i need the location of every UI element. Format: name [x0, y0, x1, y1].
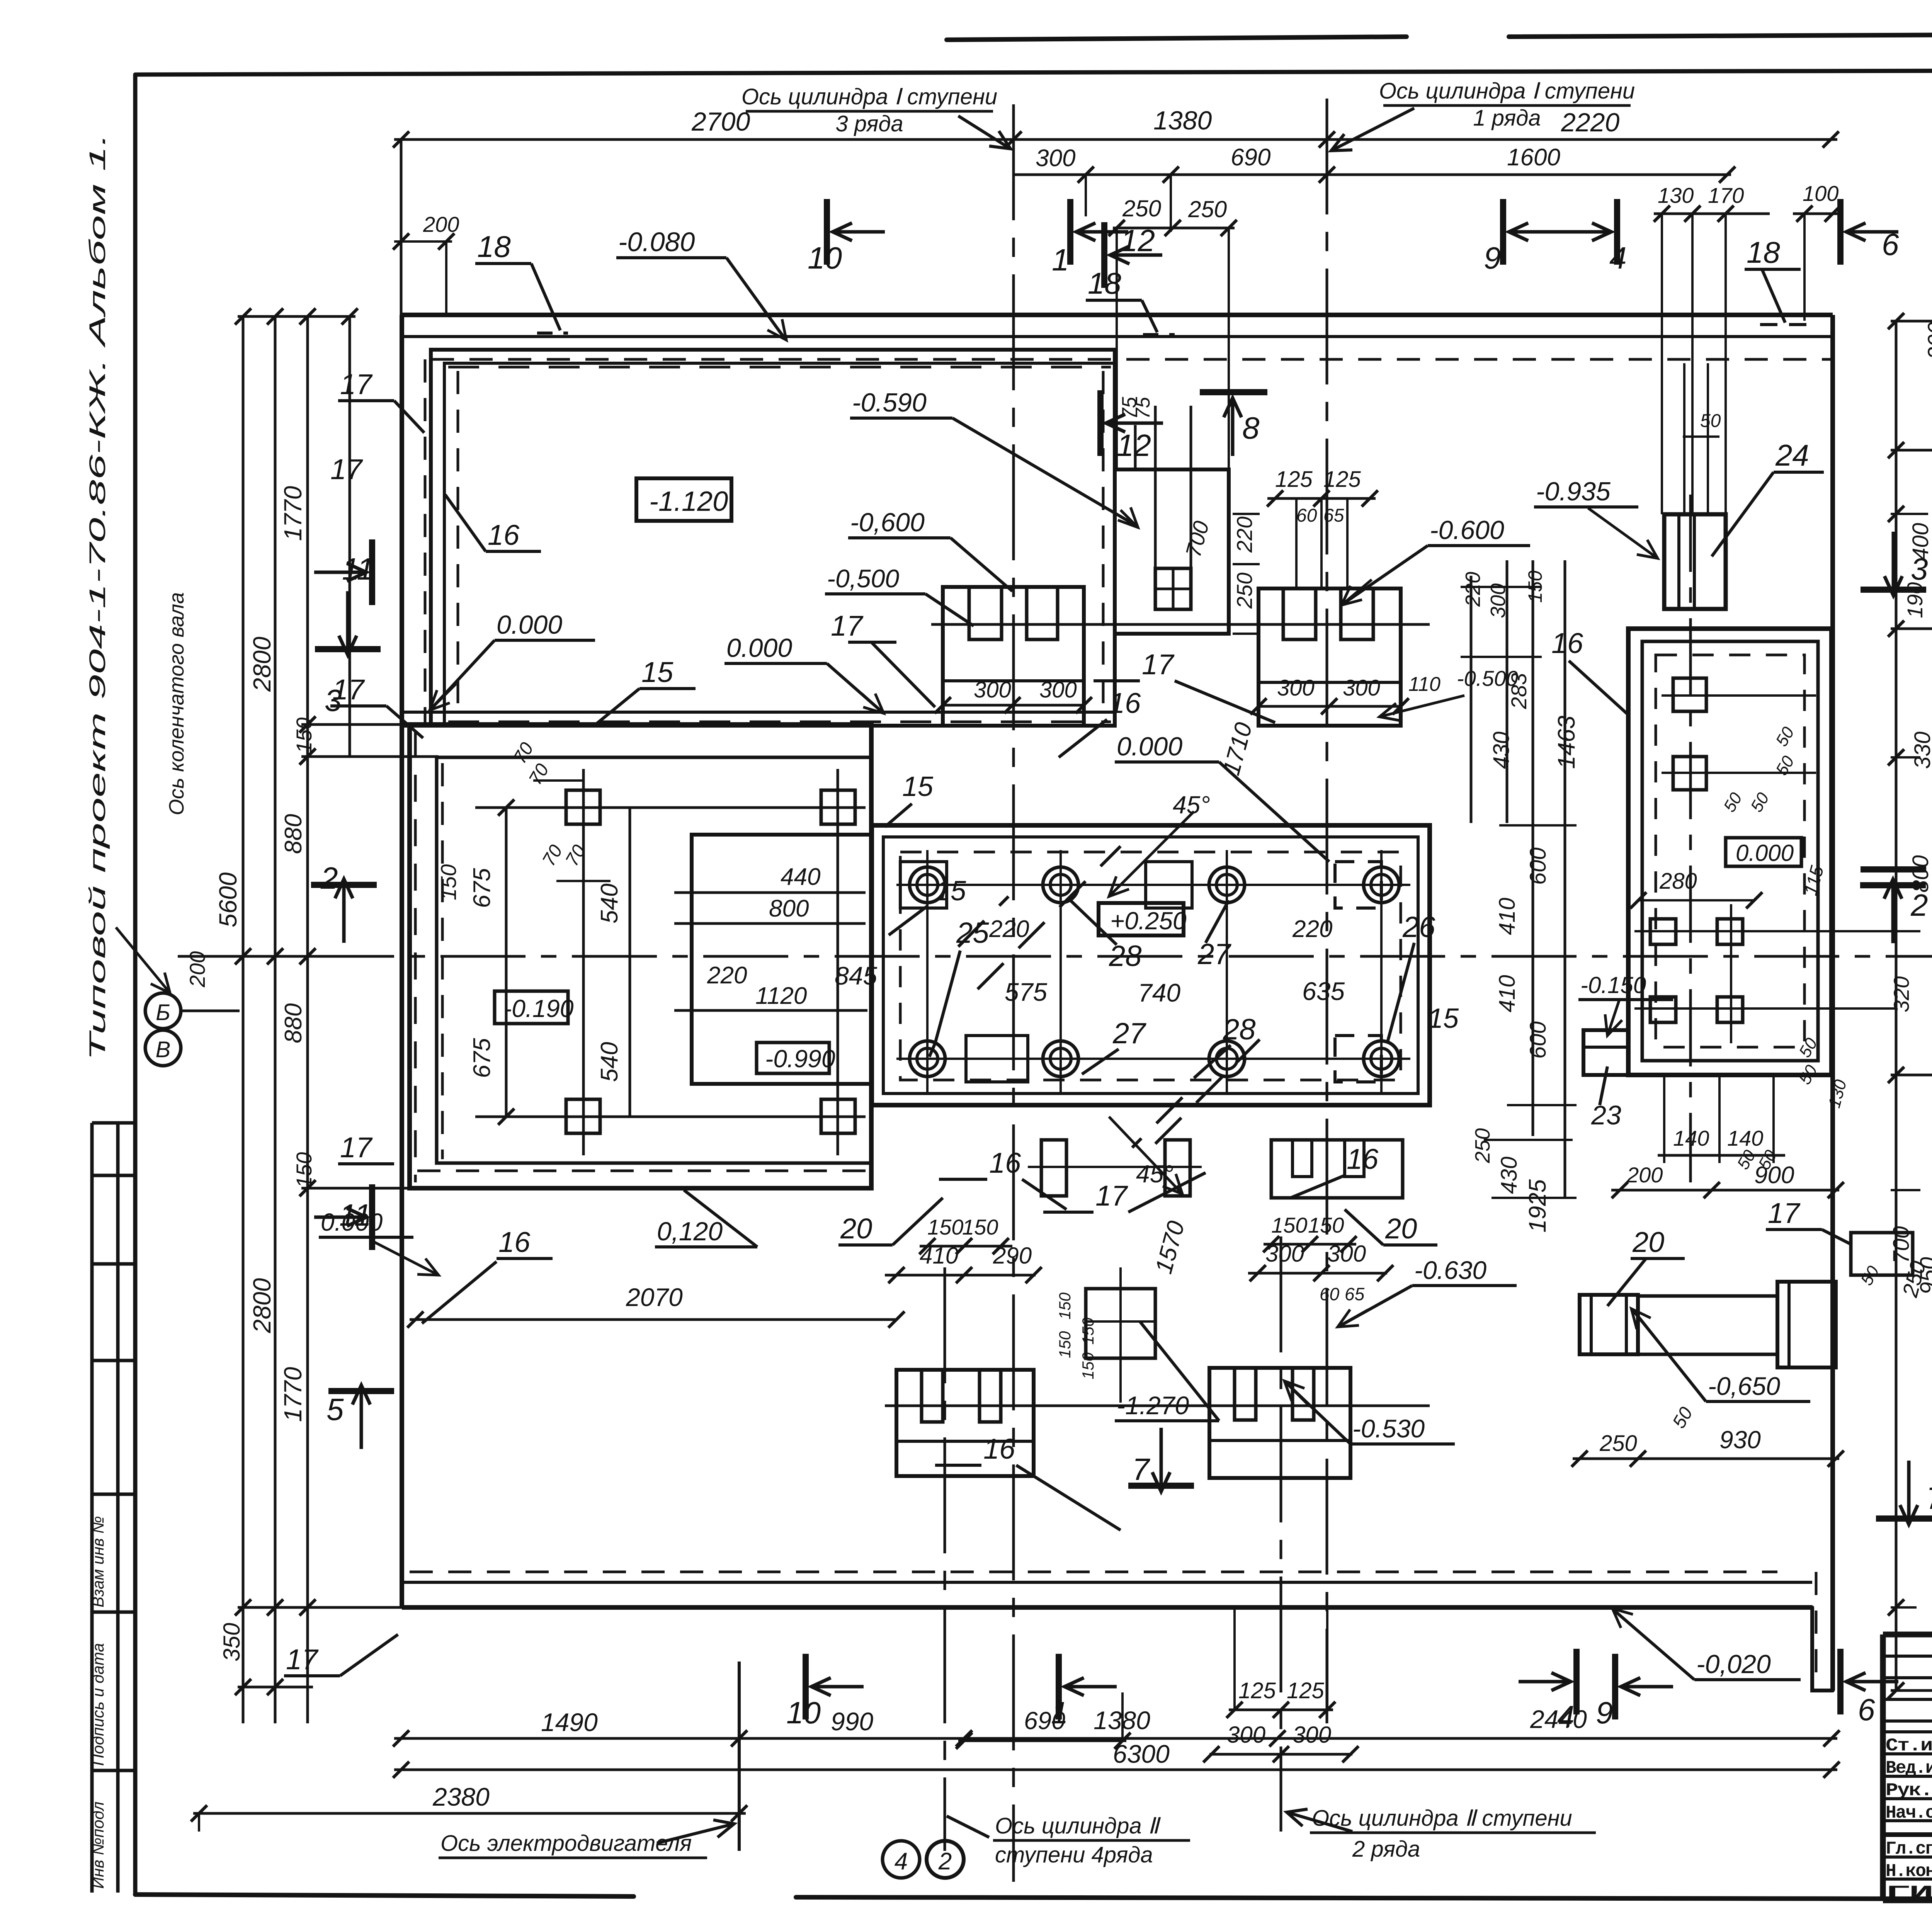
upper tall pedestal — [1115, 469, 1229, 634]
svg-text:Ст.инж: Ст.инж — [1886, 1736, 1932, 1756]
svg-text:1380: 1380 — [1153, 106, 1212, 135]
svg-text:17: 17 — [1095, 1180, 1128, 1212]
right block axis vertical — [1689, 495, 1692, 1182]
svg-text:675: 675 — [469, 868, 495, 908]
svg-text:2: 2 — [320, 861, 338, 895]
svg-text:16: 16 — [989, 1147, 1021, 1179]
foundation slab left edge — [400, 315, 404, 1607]
section mark 4 — [1573, 1649, 1580, 1714]
frame left border — [133, 75, 138, 1895]
svg-text:23: 23 — [1591, 1100, 1621, 1130]
svg-text:2: 2 — [938, 1848, 952, 1875]
right chain ticks/labels — [1891, 320, 1932, 323]
svg-text:25: 25 — [956, 917, 989, 949]
svg-text:4: 4 — [1609, 241, 1627, 275]
room bottom double line — [402, 724, 1115, 728]
svg-text:ступени 4ряда: ступени 4ряда — [995, 1842, 1153, 1867]
section mark 5 — [328, 1388, 394, 1394]
svg-text:1380: 1380 — [1094, 1706, 1150, 1735]
svg-text:15: 15 — [641, 656, 673, 688]
foundation slab bottom edge — [402, 1605, 1812, 1610]
svg-text:17: 17 — [831, 610, 864, 642]
svg-text:4: 4 — [895, 1848, 908, 1875]
section mark 9 — [1612, 1654, 1618, 1719]
svg-text:150: 150 — [927, 1215, 963, 1239]
circled numbers 4 2 — [883, 1841, 920, 1878]
svg-text:800: 800 — [769, 895, 809, 922]
svg-text:26: 26 — [1402, 911, 1435, 944]
svg-text:Б: Б — [156, 1000, 170, 1025]
section mark 2 — [311, 882, 377, 888]
svg-text:9: 9 — [1596, 1696, 1613, 1730]
upper room dashed inset verticals — [457, 371, 459, 719]
section mark 2 — [1860, 882, 1926, 888]
svg-text:2220: 2220 — [1561, 108, 1619, 137]
svg-text:635: 635 — [1302, 977, 1345, 1005]
svg-text:1490: 1490 — [541, 1708, 598, 1736]
svg-text:300: 300 — [1036, 145, 1075, 172]
svg-text:50: 50 — [1747, 789, 1773, 815]
svg-text:300: 300 — [1277, 675, 1315, 701]
right dim chain verticals — [1895, 321, 1898, 1690]
svg-text:50: 50 — [1795, 1062, 1821, 1088]
svg-text:3: 3 — [1911, 552, 1928, 586]
svg-text:220: 220 — [707, 962, 747, 989]
svg-text:125: 125 — [1275, 467, 1313, 492]
upper room walls — [431, 350, 1115, 726]
svg-text:-0,650: -0,650 — [1708, 1372, 1780, 1400]
svg-text:Вед.инж: Вед.инж — [1886, 1758, 1932, 1778]
section mark 11 — [369, 1184, 375, 1250]
svg-text:1463: 1463 — [1553, 716, 1580, 769]
svg-text:15: 15 — [902, 771, 934, 802]
svg-text:7: 7 — [1132, 1452, 1150, 1486]
svg-text:50: 50 — [1700, 411, 1721, 431]
svg-text:200: 200 — [1923, 322, 1932, 360]
svg-text:0.000: 0.000 — [1736, 840, 1794, 866]
svg-text:-0,020: -0,020 — [1696, 1650, 1771, 1679]
main axis verticals — [1012, 104, 1015, 1882]
45deg arc bottom — [1109, 1117, 1182, 1194]
bottom left comb — [896, 1370, 1034, 1476]
svg-text:220: 220 — [989, 916, 1029, 942]
svg-text:125: 125 — [1323, 467, 1361, 492]
svg-text:60: 60 — [1320, 1284, 1340, 1304]
crankshaft axis — [178, 955, 1932, 958]
right tall block inner — [1642, 641, 1818, 1061]
svg-text:220: 220 — [1461, 572, 1485, 607]
section mark 7 — [1876, 1515, 1932, 1522]
svg-text:100: 100 — [1803, 181, 1838, 206]
svg-text:ГИП: ГИП — [1886, 1883, 1932, 1903]
section mark 1 — [1056, 1654, 1062, 1719]
svg-text:20: 20 — [1385, 1213, 1417, 1245]
svg-text:12: 12 — [1117, 428, 1151, 463]
svg-text:15: 15 — [1428, 1003, 1459, 1034]
svg-text:700: 700 — [1889, 1226, 1914, 1264]
svg-text:2440: 2440 — [1530, 1705, 1587, 1733]
svg-text:-0.080: -0.080 — [618, 227, 695, 257]
svg-text:10: 10 — [786, 1696, 821, 1730]
svg-text:300: 300 — [1265, 1241, 1304, 1267]
svg-text:1120: 1120 — [755, 983, 807, 1009]
svg-text:990: 990 — [831, 1707, 873, 1736]
svg-text:-0.190: -0.190 — [503, 995, 574, 1022]
svg-text:Взам инв №: Взам инв № — [89, 1516, 107, 1607]
svg-text:150: 150 — [292, 718, 316, 753]
svg-text:28: 28 — [1109, 940, 1142, 973]
svg-text:880: 880 — [280, 814, 307, 854]
svg-text:16: 16 — [488, 519, 520, 551]
svg-text:17: 17 — [1768, 1197, 1801, 1229]
right pads below pedestal — [1271, 1140, 1403, 1198]
svg-text:600: 600 — [1526, 1021, 1551, 1059]
svg-text:300: 300 — [974, 677, 1011, 702]
svg-text:10: 10 — [808, 241, 842, 275]
svg-text:16: 16 — [1347, 1143, 1379, 1175]
svg-text:17: 17 — [1142, 648, 1175, 680]
svg-text:75: 75 — [1132, 396, 1154, 419]
svg-text:-0.935: -0.935 — [1536, 477, 1611, 506]
right comb slots — [1283, 588, 1316, 639]
left chain mid ticks — [238, 955, 313, 958]
svg-text:18: 18 — [477, 230, 511, 264]
svg-text:540: 540 — [596, 884, 623, 923]
svg-text:440: 440 — [781, 864, 820, 890]
svg-text:Н.контр: Н.контр — [1886, 1861, 1932, 1881]
anchor center lines — [475, 806, 866, 809]
svg-text:150: 150 — [1056, 1331, 1074, 1358]
svg-text:900: 900 — [1754, 1162, 1794, 1189]
svg-text:50: 50 — [1669, 1403, 1697, 1432]
svg-text:50: 50 — [1772, 753, 1798, 779]
inner right chain (1463 etc) — [1470, 576, 1473, 823]
svg-text:170: 170 — [1708, 183, 1744, 207]
svg-text:16: 16 — [983, 1433, 1015, 1465]
svg-text:24: 24 — [1775, 438, 1809, 472]
svg-text:410: 410 — [1495, 975, 1520, 1012]
svg-text:930: 930 — [1719, 1426, 1761, 1454]
svg-text:17: 17 — [330, 453, 363, 485]
left machine block outer wall — [410, 724, 871, 1188]
svg-text:700: 700 — [1181, 519, 1214, 560]
svg-text:0.000: 0.000 — [497, 610, 562, 639]
svg-text:220: 220 — [1232, 517, 1257, 553]
svg-text:-0.600: -0.600 — [1430, 515, 1504, 545]
svg-text:950: 950 — [1916, 1257, 1932, 1294]
svg-text:320: 320 — [1889, 976, 1913, 1012]
svg-text:2380: 2380 — [432, 1782, 490, 1811]
svg-text:1 ряда: 1 ряда — [1473, 105, 1541, 131]
svg-text:300: 300 — [1227, 1722, 1265, 1748]
svg-text:5: 5 — [327, 1392, 344, 1427]
svg-text:-0.150: -0.150 — [1580, 972, 1646, 998]
svg-text:Ось цилиндра Ⅱ: Ось цилиндра Ⅱ — [995, 1813, 1161, 1838]
svg-text:283: 283 — [1507, 673, 1531, 709]
section mark 6 — [1837, 199, 1844, 265]
frame top border — [135, 69, 1932, 75]
svg-text:Ось цилиндра Ⅰ ступени: Ось цилиндра Ⅰ ступени — [742, 84, 997, 109]
central pedestal dashed inset — [900, 852, 1401, 1080]
svg-text:430: 430 — [1497, 1156, 1522, 1194]
svg-text:28: 28 — [1223, 1013, 1256, 1046]
foundation slab right edge — [1830, 315, 1835, 1690]
svg-text:-0.530: -0.530 — [1352, 1414, 1425, 1443]
section mark 9 — [1500, 199, 1506, 265]
right tall block dashed — [1656, 655, 1804, 1047]
section mark 10 — [803, 1654, 809, 1719]
section line through pedestals — [931, 623, 1430, 626]
svg-text:-0,500: -0,500 — [827, 564, 899, 593]
svg-text:600: 600 — [1526, 847, 1551, 885]
svg-text:2: 2 — [1910, 888, 1928, 922]
svg-text:250: 250 — [1471, 1128, 1494, 1163]
svg-text:300: 300 — [1039, 677, 1077, 702]
elevation box -0.990 — [757, 1043, 829, 1073]
svg-text:0.000: 0.000 — [1117, 732, 1182, 761]
right block squares — [1673, 678, 1706, 711]
svg-text:1: 1 — [1051, 1696, 1068, 1730]
svg-text:5600: 5600 — [214, 872, 242, 927]
svg-text:6: 6 — [1858, 1692, 1875, 1727]
svg-text:125: 125 — [1238, 1678, 1276, 1703]
svg-text:280: 280 — [1659, 869, 1697, 894]
svg-text:675: 675 — [469, 1038, 495, 1078]
svg-text:0.000: 0.000 — [321, 1208, 383, 1236]
axis circles Б В — [145, 993, 181, 1029]
svg-text:Нач.отд: Нач.отд — [1886, 1803, 1932, 1823]
svg-text:300: 300 — [1343, 675, 1380, 701]
svg-text:17: 17 — [286, 1643, 319, 1675]
svg-text:6300: 6300 — [1113, 1740, 1170, 1768]
svg-text:Ось цилиндра Ⅰ ступени: Ось цилиндра Ⅰ ступени — [1379, 78, 1635, 104]
right block bottom dims — [1663, 1075, 1665, 1163]
title block outer — [1883, 1632, 1932, 1638]
top dim line 2700 1380 2220 — [394, 138, 1837, 141]
left chain top ticks — [238, 315, 355, 318]
svg-text:690: 690 — [1231, 144, 1270, 171]
45deg arc and arrow top — [1109, 811, 1194, 896]
svg-text:27: 27 — [1112, 1017, 1146, 1050]
svg-text:130: 130 — [1658, 183, 1694, 207]
svg-text:15: 15 — [935, 876, 966, 906]
left machine block inner wall — [437, 757, 871, 1163]
svg-text:2070: 2070 — [626, 1283, 683, 1311]
small pads below pedestal — [1041, 1140, 1066, 1196]
svg-text:Типовой проект 904-1-70.86: Типовой проект 904-1-70.86-КЖ. Альбом 1. — [85, 133, 110, 1061]
svg-text:-0.630: -0.630 — [1414, 1256, 1486, 1284]
elevation label -1.120 — [636, 478, 731, 521]
top dim line 300 690 1600 — [1014, 173, 1731, 176]
left comb slots — [969, 587, 1002, 639]
dashed patch mark 18-2 — [1143, 333, 1175, 336]
svg-text:Гл.спец: Гл.спец — [1886, 1839, 1932, 1859]
svg-text:350: 350 — [219, 1623, 245, 1662]
svg-text:Ось электродвигателя: Ось электродвигателя — [440, 1831, 692, 1856]
svg-text:130: 130 — [1825, 1077, 1850, 1110]
left comb pedestal — [943, 587, 1084, 726]
svg-text:11: 11 — [342, 552, 374, 586]
section mark 3 — [1861, 587, 1926, 593]
svg-text:740: 740 — [1138, 978, 1180, 1007]
svg-text:16: 16 — [1551, 627, 1583, 659]
svg-text:3 ряда: 3 ряда — [835, 111, 903, 136]
svg-text:-1.270: -1.270 — [1117, 1391, 1189, 1420]
svg-text:50: 50 — [1772, 724, 1798, 750]
foundation slab top edge — [402, 313, 1833, 317]
machine block dashed inset — [441, 763, 444, 1159]
svg-text:18: 18 — [1088, 266, 1121, 300]
right tall block outer — [1628, 629, 1832, 1075]
left stamp column grid — [90, 1123, 94, 1893]
central pedestal outer — [872, 825, 1430, 1105]
svg-text:65: 65 — [1345, 1284, 1365, 1304]
svg-text:330: 330 — [1910, 731, 1932, 769]
right block square center lines — [1662, 694, 1816, 697]
svg-text:20: 20 — [840, 1213, 872, 1245]
svg-text:Инв №подл: Инв №подл — [89, 1801, 107, 1889]
svg-text:1770: 1770 — [279, 486, 307, 541]
bottom 6300 — [394, 1769, 1837, 1771]
svg-text:В: В — [156, 1037, 171, 1062]
section mark 1 — [1067, 199, 1073, 265]
anchor bolts bottom row — [910, 1041, 945, 1077]
svg-text:70: 70 — [562, 841, 590, 869]
svg-text:45°: 45° — [1173, 791, 1210, 819]
machine block anchor squares — [566, 790, 600, 824]
svg-text:1925: 1925 — [1524, 1179, 1551, 1233]
svg-text:9: 9 — [1484, 241, 1501, 275]
machine block dims — [505, 808, 508, 1117]
section mark 10 — [824, 199, 830, 265]
svg-text:0,120: 0,120 — [657, 1217, 723, 1246]
bottom right step strip — [1580, 1295, 1638, 1354]
section mark 7 — [1128, 1483, 1194, 1489]
svg-text:7: 7 — [1926, 1481, 1932, 1515]
svg-text:1770: 1770 — [279, 1367, 307, 1422]
section mark 12 — [1101, 222, 1107, 288]
svg-text:Рук.гр: Рук.гр — [1886, 1781, 1932, 1801]
svg-text:17: 17 — [340, 368, 373, 400]
12 mark lower — [1097, 390, 1104, 456]
svg-text:1710: 1710 — [1218, 720, 1257, 778]
bottom right comb — [1209, 1368, 1350, 1478]
svg-text:140: 140 — [1727, 1126, 1763, 1150]
svg-text:880: 880 — [280, 1003, 307, 1043]
svg-text:410: 410 — [920, 1243, 958, 1269]
svg-text:150: 150 — [962, 1215, 998, 1239]
frame bottom border — [135, 1895, 634, 1896]
hatched square on tall pedestal — [1155, 568, 1191, 609]
0.000 box right block — [1726, 838, 1801, 866]
svg-text:-0,600: -0,600 — [850, 508, 925, 537]
svg-text:575: 575 — [1005, 978, 1047, 1006]
svg-text:60: 60 — [1296, 505, 1317, 526]
svg-text:250: 250 — [1188, 196, 1227, 222]
left dim chain verticals — [242, 316, 245, 956]
svg-text:Ось коленчатого вала: Ось коленчатого вала — [165, 592, 188, 815]
elevation box -0.190 — [495, 991, 568, 1024]
step block left of right block — [1583, 1030, 1628, 1075]
section mark 11 — [369, 539, 375, 605]
svg-text:16: 16 — [1109, 687, 1141, 719]
svg-text:2700: 2700 — [691, 107, 750, 136]
svg-text:+0.250: +0.250 — [1110, 907, 1187, 935]
dashed patch mark 18-1 — [537, 332, 568, 335]
tall narrow block below pedestal — [1086, 1289, 1155, 1358]
svg-text:2 ряда: 2 ряда — [1352, 1837, 1420, 1862]
title block left row lines — [1883, 1655, 1932, 1658]
slab bottom-right step — [1812, 1607, 1833, 1690]
svg-text:Подпись и дата: Подпись и дата — [89, 1643, 107, 1766]
comb center line — [885, 1405, 1430, 1407]
svg-text:250: 250 — [1599, 1431, 1637, 1456]
45 deg dashed diagonals — [978, 846, 1121, 989]
svg-text:300: 300 — [1327, 1241, 1366, 1267]
svg-text:300: 300 — [1486, 583, 1510, 618]
svg-text:140: 140 — [1673, 1126, 1709, 1150]
svg-text:110: 110 — [1408, 673, 1440, 696]
svg-text:0.000: 0.000 — [726, 633, 792, 663]
svg-text:250: 250 — [1122, 196, 1161, 221]
svg-text:8: 8 — [1242, 411, 1260, 445]
svg-text:300: 300 — [1293, 1722, 1331, 1748]
sheet top cut edge line — [947, 37, 1406, 40]
svg-text:70: 70 — [525, 760, 553, 788]
svg-text:1600: 1600 — [1507, 144, 1560, 171]
svg-text:2800: 2800 — [248, 1278, 276, 1333]
section mark 3 — [315, 646, 381, 652]
svg-text:16: 16 — [498, 1226, 531, 1258]
machine block pit — [692, 835, 871, 1084]
8 section upper — [1200, 389, 1267, 395]
svg-text:150: 150 — [1056, 1292, 1074, 1320]
svg-text:150: 150 — [1271, 1213, 1307, 1237]
svg-text:17: 17 — [340, 1131, 373, 1163]
svg-text:200: 200 — [1626, 1163, 1663, 1187]
right comb pedestal — [1259, 588, 1401, 726]
svg-text:18: 18 — [1747, 235, 1780, 269]
bottom main chain 1490 990 1380 2440 — [394, 1737, 1837, 1740]
svg-text:430: 430 — [1489, 731, 1514, 769]
svg-text:70: 70 — [539, 841, 567, 869]
central pedestal inner line — [883, 837, 1418, 1094]
svg-text:2800: 2800 — [248, 636, 276, 692]
svg-text:-0.990: -0.990 — [765, 1045, 835, 1073]
svg-text:45°: 45° — [1136, 1160, 1173, 1188]
svg-text:12: 12 — [1121, 223, 1155, 258]
svg-text:50: 50 — [1720, 789, 1746, 815]
svg-text:250: 250 — [1232, 573, 1257, 609]
svg-text:1570: 1570 — [1150, 1218, 1190, 1277]
svg-text:150: 150 — [1079, 1317, 1097, 1345]
svg-text:-0.590: -0.590 — [852, 388, 927, 417]
svg-text:200: 200 — [185, 951, 209, 988]
svg-text:20: 20 — [1632, 1226, 1664, 1258]
bolt pocket squares — [900, 862, 947, 908]
svg-text:6: 6 — [1882, 227, 1899, 262]
svg-text:410: 410 — [1495, 898, 1520, 935]
svg-text:540: 540 — [596, 1042, 623, 1082]
svg-text:125: 125 — [1287, 1678, 1325, 1703]
section mark 4 — [1614, 199, 1620, 265]
svg-text:27: 27 — [1197, 938, 1231, 971]
svg-text:-1.120: -1.120 — [649, 486, 728, 517]
section mark 6 — [1837, 1649, 1844, 1714]
bottom 2380 — [193, 1812, 746, 1815]
anchor bolts top row — [910, 867, 945, 903]
svg-text:Ось цилиндра Ⅱ ступени: Ось цилиндра Ⅱ ступени — [1312, 1806, 1572, 1831]
